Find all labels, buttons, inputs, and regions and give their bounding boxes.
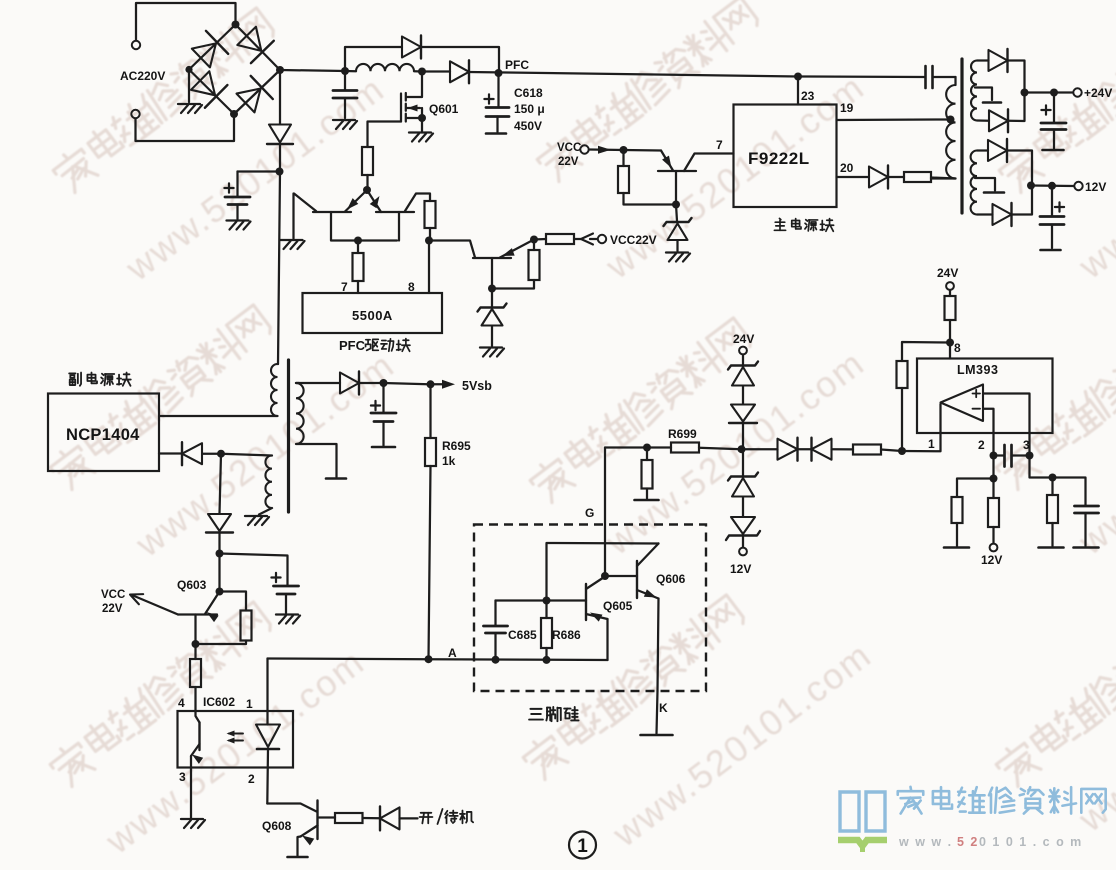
svg-text:12V: 12V bbox=[981, 553, 1002, 567]
wire sec2 bottom bbox=[296, 444, 337, 477]
wire to C right bbox=[1053, 478, 1086, 506]
transistor PNP left of totem bbox=[313, 190, 367, 212]
bridge diode top-left bbox=[192, 31, 228, 68]
label pin7 bbox=[341, 280, 348, 294]
terminal 12V z bbox=[739, 548, 747, 556]
capacitor C input bbox=[333, 91, 357, 99]
label pin2 lm bbox=[978, 438, 985, 452]
svg-text:+24V: +24V bbox=[1084, 86, 1112, 100]
svg-text:VCC22V: VCC22V bbox=[610, 233, 657, 247]
label 5500A bbox=[352, 308, 393, 323]
wire ZD6 to term bbox=[742, 537, 744, 547]
wire G horiz bbox=[605, 446, 647, 448]
wire node to Q emitter bbox=[624, 149, 662, 152]
node R686 top bbox=[543, 597, 551, 605]
wire pin2 down bbox=[992, 456, 994, 479]
wire 24V to node8 bbox=[949, 290, 951, 343]
node pin8 lm bbox=[946, 339, 954, 347]
phototransistor IC602 bbox=[191, 711, 203, 768]
label 12V z bbox=[730, 562, 751, 576]
node totem mid bbox=[354, 237, 362, 245]
label 8 lm bbox=[954, 341, 961, 355]
wire NCP top bbox=[159, 415, 278, 417]
ground C618 bbox=[486, 132, 506, 135]
label 24V z bbox=[733, 332, 754, 346]
wire Q605 emitter bbox=[606, 619, 608, 660]
wire HV drop bbox=[279, 70, 281, 124]
wire Q603 collector bbox=[194, 615, 196, 711]
node pin19 tap bbox=[947, 116, 955, 124]
plus C618 bbox=[484, 94, 493, 103]
transistor Q608 bbox=[301, 801, 336, 846]
logo url bbox=[898, 835, 1083, 849]
svg-text:8: 8 bbox=[954, 341, 961, 355]
resistor R pin20 bbox=[904, 172, 931, 182]
svg-text:22V: 22V bbox=[558, 156, 579, 168]
diode D chain bbox=[206, 514, 233, 533]
transistor Q pnp drv bbox=[473, 240, 534, 259]
wire 5vsb arrow bbox=[431, 380, 456, 389]
diode ZD4 bbox=[729, 387, 757, 424]
bridge diode top-right bbox=[237, 27, 273, 63]
wire Q605 base bbox=[547, 599, 587, 601]
diode D s2 bbox=[812, 438, 832, 461]
led IC602 bbox=[256, 725, 280, 750]
wire R a2 gnd bbox=[956, 523, 958, 546]
capacitor C series bbox=[926, 66, 956, 88]
svg-text:19: 19 bbox=[840, 101, 854, 115]
svg-text:Q603: Q603 bbox=[177, 578, 207, 592]
node pin2 bbox=[990, 452, 998, 460]
diode D ncp bbox=[182, 442, 202, 465]
svg-text:IC602: IC602 bbox=[203, 695, 235, 709]
resistor R695 bbox=[425, 438, 436, 466]
wire pin8 into box bbox=[949, 343, 951, 359]
node bridge left bbox=[185, 66, 192, 73]
node totem top bbox=[363, 186, 371, 194]
resistor R g bbox=[642, 460, 653, 489]
node 5vsb cap bbox=[380, 379, 388, 387]
svg-text:1: 1 bbox=[246, 697, 253, 711]
svg-text:5Vsb: 5Vsb bbox=[462, 379, 492, 393]
resistor R pin8 bbox=[425, 201, 436, 228]
node L601 right bbox=[418, 68, 426, 76]
label VCC22V bbox=[610, 233, 657, 247]
label SCR name bbox=[529, 707, 578, 721]
svg-text:R695: R695 bbox=[442, 439, 471, 453]
resistor R vcc bbox=[618, 166, 629, 193]
label aux power bbox=[69, 373, 131, 386]
label R695 bbox=[442, 439, 471, 468]
diode D s1 bbox=[778, 438, 798, 461]
diode D 5vsb bbox=[340, 372, 359, 395]
terminal VCC22V bbox=[598, 235, 606, 243]
label 12V lm bbox=[981, 553, 1002, 567]
node C685 bot bbox=[492, 656, 500, 664]
capacitor C603 bbox=[274, 586, 299, 594]
ic NCP1404 box bbox=[48, 394, 159, 472]
svg-text:20: 20 bbox=[840, 161, 854, 175]
svg-text:8: 8 bbox=[408, 280, 415, 294]
svg-text:4: 4 bbox=[178, 696, 185, 710]
svg-text:0 1 0 1 . c o m: 0 1 0 1 . c o m bbox=[979, 835, 1083, 849]
node pin2 low bbox=[990, 475, 998, 483]
node bridge bottom bbox=[230, 110, 238, 118]
svg-text:12V: 12V bbox=[1085, 180, 1106, 194]
node zener1 top bbox=[488, 285, 496, 293]
svg-text:R686: R686 bbox=[552, 628, 581, 642]
label VCC 22V q603 bbox=[101, 589, 125, 615]
wire Q608 base bbox=[267, 804, 316, 812]
resistor R699 bbox=[671, 443, 699, 453]
svg-text:VCC: VCC bbox=[557, 142, 581, 154]
label pin3 bbox=[179, 770, 186, 784]
svg-text:C618: C618 bbox=[514, 86, 543, 100]
svg-text:VCC: VCC bbox=[101, 589, 125, 601]
svg-text:3: 3 bbox=[179, 770, 186, 784]
label R686 bbox=[552, 628, 581, 642]
wire R608 to D bbox=[363, 817, 381, 819]
ground R a2 bbox=[944, 546, 969, 549]
resistor R686 bbox=[541, 618, 552, 648]
transistor Q606 bbox=[605, 544, 659, 599]
svg-text:7: 7 bbox=[341, 280, 348, 294]
node 12V a bbox=[1027, 182, 1035, 190]
wire Q608 emitter bbox=[298, 837, 301, 856]
wire pin3 gnd bbox=[190, 768, 192, 819]
svg-text:Q608: Q608 bbox=[262, 819, 292, 833]
ground K bbox=[641, 734, 673, 737]
wire Q601 drain bbox=[407, 72, 422, 98]
wire D24B out bbox=[1009, 93, 1025, 122]
svg-text:22V: 22V bbox=[102, 603, 123, 615]
resistor R b2 bbox=[988, 498, 999, 527]
transformer T core bbox=[960, 59, 963, 213]
resistor R pin7 bbox=[353, 253, 364, 281]
sec1 center tap bbox=[975, 88, 1001, 103]
capacitor C pin3 bbox=[1075, 506, 1099, 546]
wire Q vcc base bbox=[675, 171, 677, 205]
ic LM393 box bbox=[917, 359, 1053, 434]
label K bbox=[659, 701, 668, 715]
svg-text:Q606: Q606 bbox=[656, 572, 686, 586]
wire base wire bbox=[429, 241, 475, 258]
svg-text:2: 2 bbox=[978, 438, 985, 452]
resistor R603 b bbox=[241, 611, 252, 641]
zener ZD3 bbox=[728, 355, 758, 386]
wire C618 bottom bbox=[496, 117, 498, 133]
label Q606 bbox=[656, 572, 686, 586]
ground C input bbox=[333, 120, 357, 129]
node 12V b bbox=[1048, 182, 1056, 190]
wire D12B out bbox=[1012, 186, 1032, 215]
wire pin2 bbox=[266, 749, 269, 804]
transistor Q vcc bbox=[658, 151, 696, 172]
diode D pin20 bbox=[869, 166, 888, 189]
wire P2 gnd bbox=[259, 508, 272, 515]
node R686 bot bbox=[543, 656, 551, 664]
open arrow VCC22 bbox=[130, 594, 143, 604]
wire R699 left bbox=[647, 446, 671, 448]
label standby bbox=[420, 809, 474, 824]
node PFC bbox=[495, 69, 503, 77]
node pin8 bbox=[425, 237, 433, 245]
label 19 bbox=[840, 101, 854, 115]
label pin3 lm bbox=[1023, 438, 1030, 452]
capacitor C 12V bbox=[1040, 186, 1064, 250]
svg-text:150 μ: 150 μ bbox=[514, 102, 545, 116]
label PFC bbox=[505, 58, 529, 72]
ground totem left bbox=[281, 240, 305, 249]
node pin1 lm bbox=[898, 447, 906, 455]
wire D608 out bbox=[400, 817, 418, 819]
label pin2 bbox=[248, 772, 255, 786]
ground C hv bbox=[227, 221, 251, 230]
zener ZD5 bbox=[728, 449, 758, 496]
wire node to P2 bbox=[221, 454, 272, 456]
transformer T2 aux winding bbox=[265, 456, 272, 509]
zener ZD2 bbox=[664, 205, 692, 252]
wire chain3 bbox=[218, 554, 220, 592]
wire pin19 bbox=[837, 118, 949, 121]
wire to 12V term bbox=[1031, 184, 1074, 187]
ic IC602 box bbox=[178, 711, 294, 768]
node bridge right bbox=[276, 66, 284, 74]
capacitor C 24V bbox=[1041, 93, 1066, 151]
label PFC driver bbox=[339, 338, 410, 353]
label R699 bbox=[668, 427, 697, 441]
dashed box SCR bbox=[474, 525, 706, 692]
resistor R608 bbox=[335, 813, 363, 823]
node Q601 source bbox=[418, 114, 426, 122]
label C618 bbox=[514, 86, 545, 133]
label Q601 bbox=[429, 102, 459, 116]
wire ZD4 to node bbox=[742, 423, 744, 449]
ground C pin3 bbox=[1074, 546, 1099, 549]
wire totem bases to rail bbox=[331, 212, 399, 241]
terminal 12V bbox=[1074, 182, 1082, 190]
resistor R in1 bbox=[853, 445, 881, 455]
svg-text:K: K bbox=[659, 701, 668, 715]
node pin23 bbox=[794, 73, 802, 81]
svg-text:G: G bbox=[585, 506, 594, 520]
wire Q601 gate bbox=[368, 122, 402, 148]
wire to 24V term bbox=[1025, 91, 1074, 93]
node 5vsb R bbox=[427, 380, 435, 388]
wire minus input bbox=[983, 409, 994, 456]
terminal 24V z bbox=[739, 347, 747, 355]
terminal 12V lm bbox=[990, 544, 998, 552]
bridge diode bottom-left bbox=[191, 71, 227, 107]
transformer T sec1 bbox=[971, 61, 989, 121]
ground P2 bbox=[245, 516, 269, 525]
wire chain2 bbox=[218, 534, 220, 554]
wire R695 upper bbox=[429, 384, 431, 438]
wire top link bbox=[547, 543, 659, 601]
svg-text:12V: 12V bbox=[730, 562, 751, 576]
svg-text:7: 7 bbox=[716, 138, 723, 152]
label pin8 bbox=[408, 280, 415, 294]
light arrows bbox=[227, 731, 244, 744]
label Q608 bbox=[262, 819, 292, 833]
svg-text:PFC: PFC bbox=[339, 338, 366, 353]
label 12V out bbox=[1085, 180, 1106, 194]
wire R gate to node bbox=[366, 175, 368, 190]
resistor R 24V bbox=[945, 296, 956, 320]
svg-text:LM393: LM393 bbox=[957, 363, 998, 377]
node zener mid bbox=[738, 445, 746, 453]
wire collector Q drv bbox=[491, 258, 493, 289]
wire Q606 emitter to K bbox=[657, 599, 659, 734]
wire R b2 bbox=[992, 479, 994, 544]
wire R g bbox=[646, 448, 648, 499]
wire branch left bbox=[957, 479, 994, 498]
transformer T2 core bbox=[287, 360, 290, 512]
svg-text:23: 23 bbox=[801, 89, 815, 103]
label Q603 bbox=[177, 578, 207, 592]
ground R g bbox=[635, 499, 659, 502]
transformer T primary bbox=[931, 77, 956, 179]
inductor L601 bbox=[345, 64, 422, 72]
wire PFC bypass top bbox=[345, 47, 499, 73]
ground bridge bbox=[178, 104, 202, 113]
wire R695 lower bbox=[429, 466, 431, 659]
capacitor C685 bbox=[484, 601, 508, 660]
svg-text:24V: 24V bbox=[937, 266, 958, 280]
diode D24 B bbox=[989, 109, 1008, 132]
diode D603 bypass bbox=[402, 36, 421, 59]
diode D12 B bbox=[993, 203, 1012, 226]
capacitor C hv bbox=[225, 197, 250, 205]
node ncp bbox=[217, 450, 225, 458]
terminal 24V lm bbox=[946, 282, 954, 290]
node A bbox=[425, 655, 433, 663]
svg-text:1: 1 bbox=[577, 836, 588, 857]
svg-text:3: 3 bbox=[1023, 438, 1030, 452]
terminal AC L bbox=[132, 3, 236, 49]
label G bbox=[585, 506, 594, 520]
diode D24 A bbox=[989, 49, 1008, 72]
wire node8 left bbox=[902, 342, 950, 361]
svg-text:24V: 24V bbox=[733, 332, 754, 346]
ground IC602 bbox=[181, 819, 205, 828]
wire cap C input bbox=[344, 71, 346, 118]
wire C618 top bbox=[497, 73, 499, 107]
ground ZD2 bbox=[666, 253, 690, 262]
label C685 bbox=[508, 628, 537, 642]
wire to VCC22V term bbox=[534, 238, 598, 241]
label main power bbox=[774, 218, 833, 231]
wire R686 bbox=[545, 601, 547, 660]
wire 5vsb a bbox=[360, 382, 384, 384]
ic 5500A box bbox=[303, 293, 443, 333]
wire R to xfmr bbox=[931, 178, 956, 179]
wire A rail bbox=[268, 659, 608, 661]
wire R603 link bbox=[196, 641, 247, 645]
node pin3 low bbox=[1049, 474, 1057, 482]
wire pin20 bbox=[837, 176, 870, 178]
wire D ncp to node bbox=[203, 453, 222, 455]
wire HV to primary bbox=[278, 172, 280, 365]
label VCC 22V src bbox=[557, 142, 581, 168]
wire R699 right bbox=[699, 448, 742, 449]
terminal +24V bbox=[1073, 88, 1081, 96]
wire cap branch bbox=[238, 172, 281, 197]
transistor NPN right of totem bbox=[367, 190, 414, 212]
wire R603 top bbox=[220, 592, 247, 611]
svg-text:A: A bbox=[448, 646, 457, 660]
ground sec2 bbox=[326, 477, 346, 480]
label 24V lm bbox=[937, 266, 958, 280]
svg-text:5 2: 5 2 bbox=[957, 835, 979, 849]
svg-text:1: 1 bbox=[928, 437, 935, 451]
transformer T2 primary bbox=[271, 364, 278, 416]
op-amp U393 bbox=[941, 385, 984, 422]
diode D602 bbox=[450, 60, 469, 83]
wire pin1 led bbox=[266, 659, 268, 725]
plus C hv bbox=[224, 183, 233, 192]
node Q drv emitter bbox=[530, 236, 538, 244]
svg-text:F9222L: F9222L bbox=[748, 149, 810, 168]
label LM393 bbox=[957, 363, 998, 377]
wire main rail bbox=[280, 70, 925, 77]
sec2 center tap bbox=[975, 178, 1004, 193]
wire R c3 bbox=[1051, 478, 1053, 547]
wire D24A out bbox=[1008, 61, 1025, 93]
svg-text:C685: C685 bbox=[508, 628, 537, 642]
ground Q601 bbox=[409, 133, 433, 142]
node HV mid bbox=[276, 168, 284, 176]
logo site name bbox=[898, 787, 1106, 814]
svg-text:NCP1404: NCP1404 bbox=[66, 426, 140, 444]
wire Q603 base bbox=[133, 596, 178, 615]
ground ZD1 bbox=[480, 348, 504, 357]
node chain bbox=[216, 550, 224, 558]
terminal VCC src bbox=[580, 145, 588, 153]
node bridge top bbox=[232, 21, 240, 29]
capacitor C618 bbox=[486, 108, 509, 117]
svg-text:w w w .: w w w . bbox=[898, 835, 953, 849]
resistor R a2 bbox=[952, 497, 963, 523]
svg-text:Q601: Q601 bbox=[429, 102, 459, 116]
node VCC src bbox=[620, 146, 628, 154]
node L601 left bbox=[341, 67, 349, 75]
wire pin8 bbox=[429, 228, 430, 293]
wire cap603 branch bbox=[220, 554, 288, 586]
capacitor C 5vsb bbox=[371, 383, 396, 447]
wire totem left collector bbox=[294, 194, 317, 239]
label A bbox=[448, 646, 457, 660]
ic F9222L box bbox=[734, 105, 837, 208]
svg-text:R699: R699 bbox=[668, 427, 697, 441]
label pin1 ic bbox=[246, 697, 253, 711]
svg-text:AC220V: AC220V bbox=[120, 69, 165, 83]
node 24V a bbox=[1021, 89, 1029, 97]
wire C685 top bbox=[496, 599, 547, 601]
wire node to diodes bbox=[742, 448, 778, 450]
wire output pin1 bbox=[902, 404, 941, 451]
label pin1 lm bbox=[928, 437, 935, 451]
wire Q601 source bbox=[421, 108, 423, 131]
node Q603 c bbox=[192, 640, 200, 648]
wire C hv gnd bbox=[236, 205, 238, 220]
wire diodes to R bbox=[832, 448, 854, 450]
node 24V b bbox=[1050, 89, 1058, 97]
node G scr bbox=[601, 572, 609, 580]
label 20 bbox=[840, 161, 854, 175]
label 5Vsb bbox=[462, 379, 492, 393]
wire Q vcc collector bbox=[684, 154, 734, 172]
